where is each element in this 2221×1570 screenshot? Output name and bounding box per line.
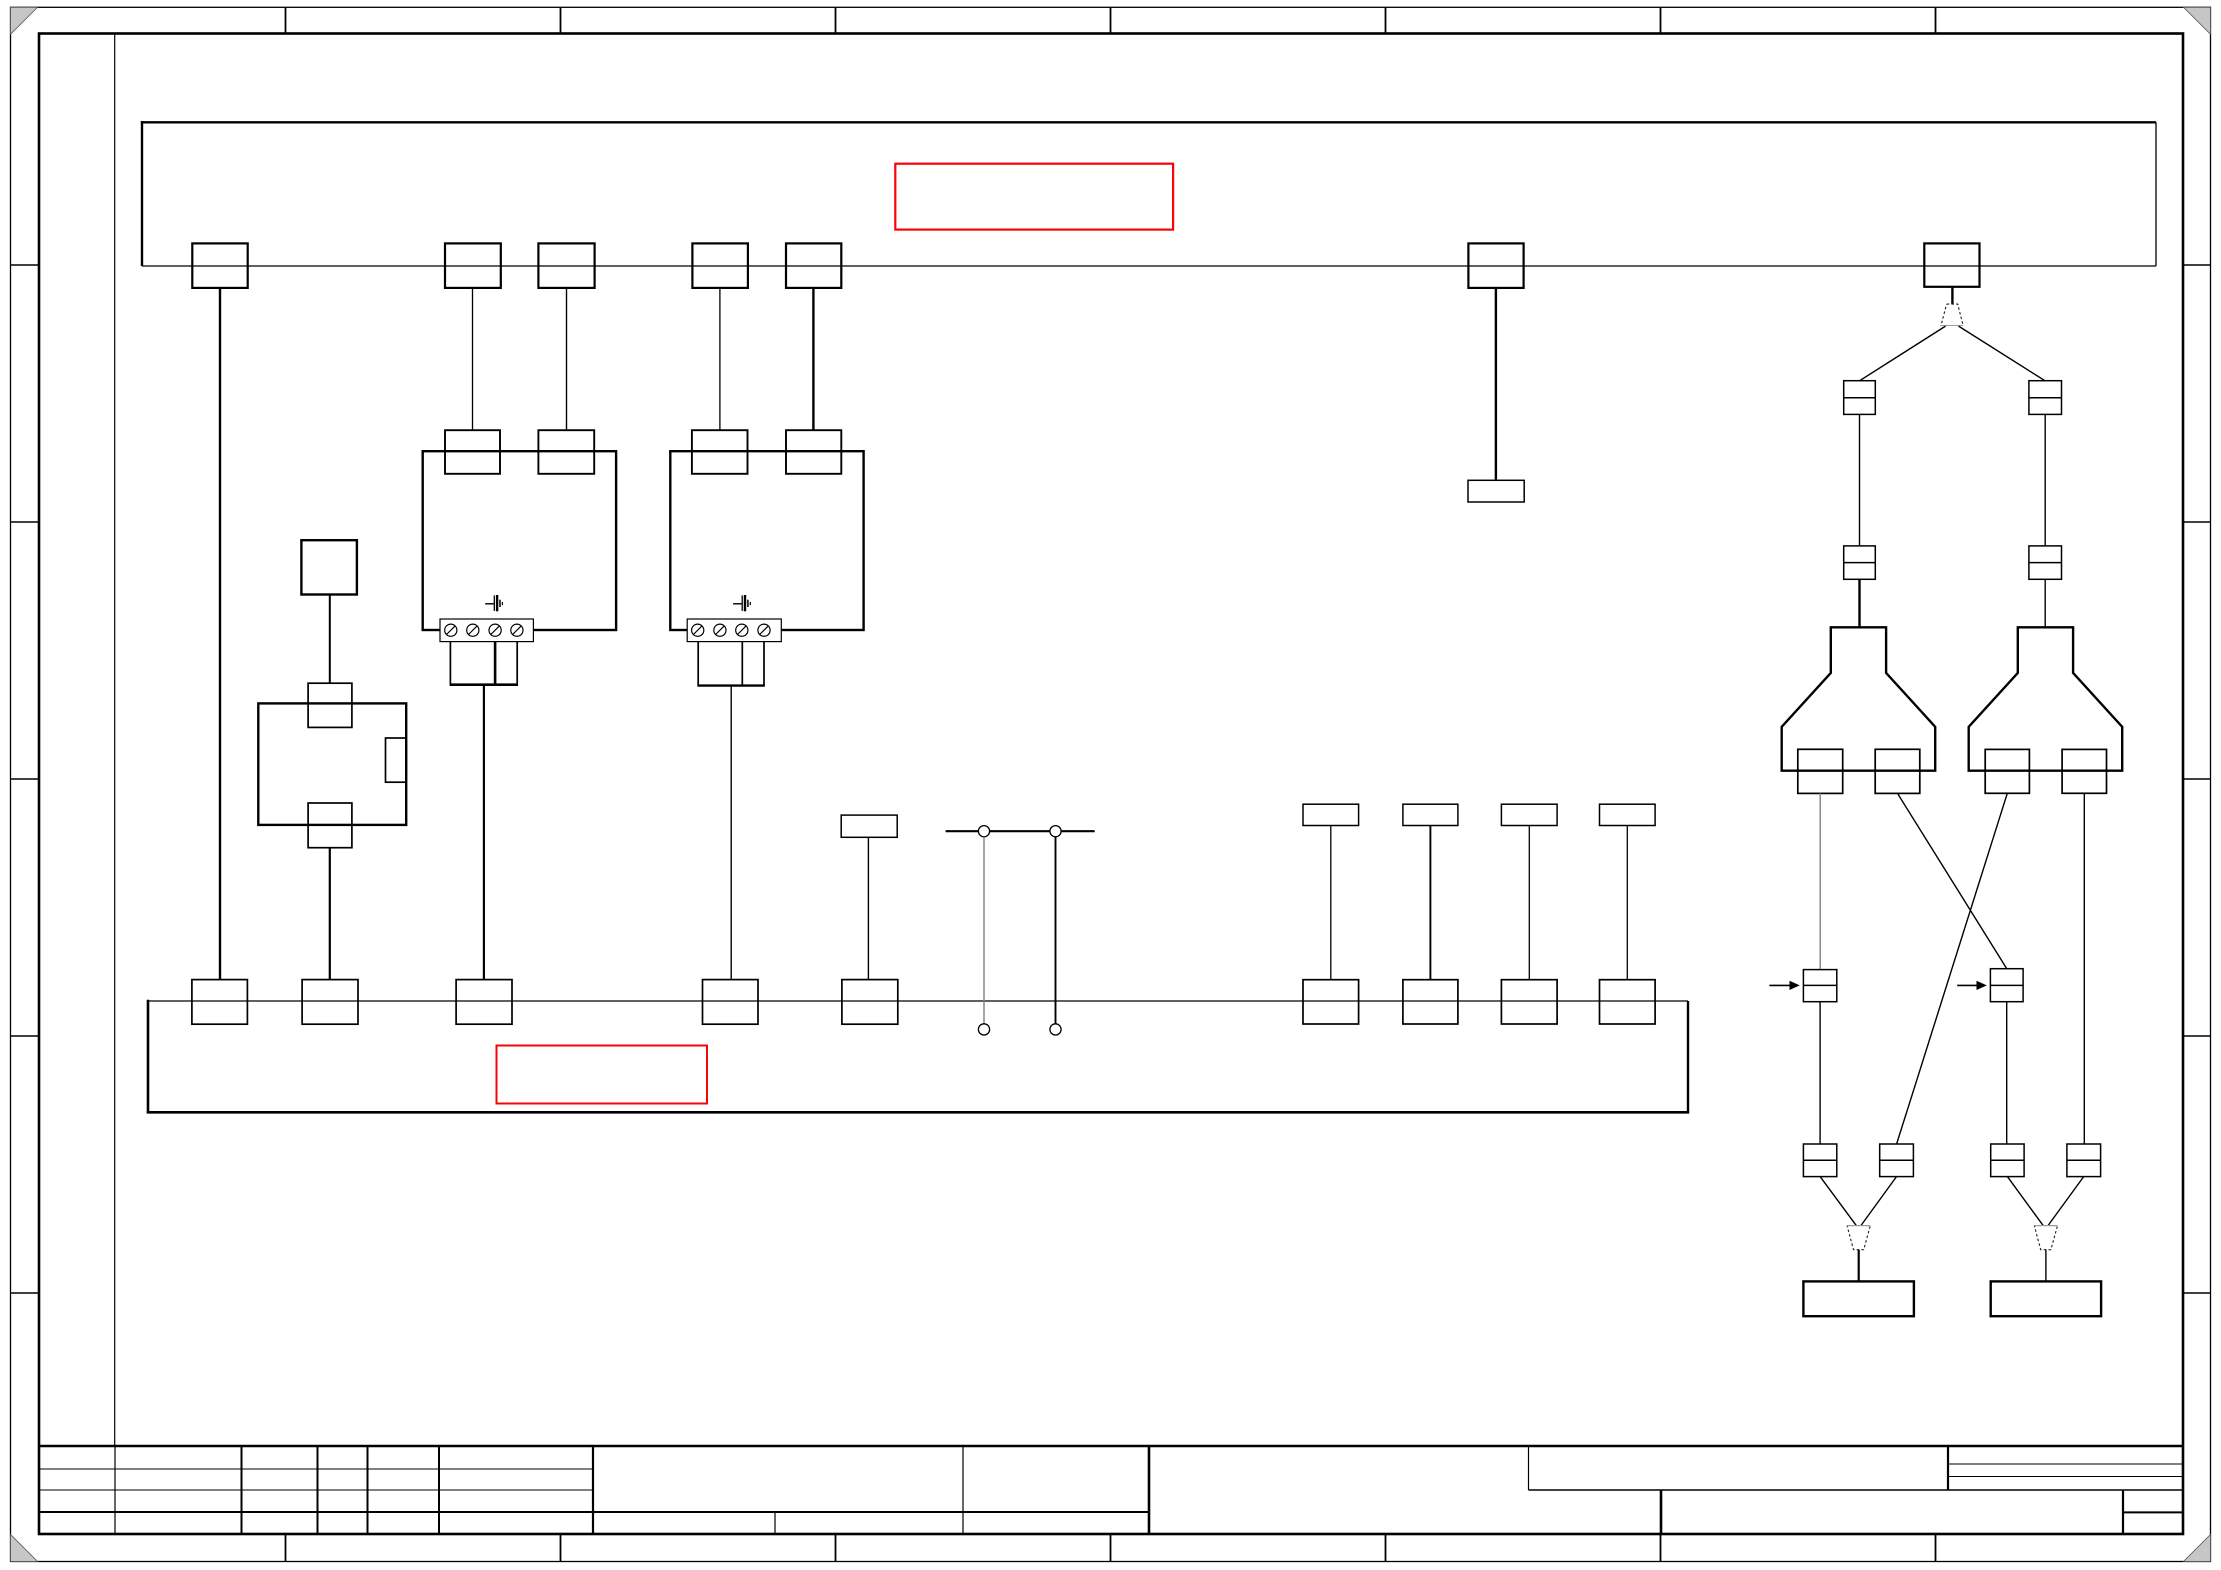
terminal H2 pin2 — [2062, 749, 2106, 793]
title block — [39, 1446, 2183, 1534]
terminal X1:5 top bus — [786, 243, 841, 288]
terminal X2:8 bottom bus — [1501, 980, 1557, 1024]
wire A to sleeve W2 — [1820, 1177, 1856, 1226]
wire terminal X1:1 to X2:1 — [219, 288, 221, 980]
splice pair right upper — [2029, 381, 2062, 415]
wire S2 to terminal X2:5 — [867, 837, 869, 979]
terminal X2:5 bottom bus — [842, 980, 898, 1025]
terminal X2:3 bottom bus — [456, 980, 512, 1025]
terminal X2:6 bottom bus — [1303, 980, 1359, 1024]
ferrule box right — [1990, 969, 2023, 1002]
terminal H1 pin1 — [1798, 749, 1843, 793]
splice pair A lower — [1803, 1144, 1836, 1177]
screw terminal strip U2 — [687, 619, 781, 642]
device box U1 — [423, 451, 616, 630]
splice pair left middle — [1844, 546, 1876, 579]
terminal X1:7 top bus — [1924, 243, 1979, 286]
terminal X1:6 top bus — [1468, 243, 1523, 288]
wire left branch down — [1859, 414, 1861, 546]
terminal U1 input a — [445, 430, 500, 474]
wire U2 plug to terminal X2:4 — [730, 686, 732, 980]
terminal X2:4 bottom bus — [703, 980, 759, 1025]
wire ferrule right down — [2006, 1002, 2008, 1144]
terminal X1:3 top bus — [538, 243, 594, 288]
wire S3 to terminal X2:6 — [1330, 826, 1332, 980]
wire terminal X1:7 down — [1951, 287, 1953, 304]
wire into hood H2 — [2044, 579, 2046, 627]
component rect S6 — [1600, 804, 1656, 825]
device rect P2 — [1991, 1281, 2101, 1316]
component rect S2 — [841, 815, 897, 837]
wire terminal X1:3 down — [566, 288, 568, 430]
plug housing U1 — [450, 642, 518, 685]
jumper contact circle top left — [978, 826, 989, 837]
bottom bus enclosure — [147, 1000, 1689, 1114]
arrow marker right — [1957, 981, 1987, 990]
terminal U2 input a — [692, 430, 748, 474]
corner triangle top-left — [11, 7, 38, 34]
revision table column line — [114, 34, 116, 1447]
terminal U1 input b — [538, 430, 594, 474]
top bus enclosure — [141, 121, 2156, 266]
component rect S5 — [1501, 804, 1557, 825]
wire B to sleeve W2 — [1861, 1177, 1897, 1226]
wire W1 branch left — [1860, 326, 1946, 381]
earth symbol U2 — [733, 595, 750, 611]
component square S1 — [301, 540, 357, 594]
corner triangle top-right — [2184, 7, 2211, 34]
frame column ticks top band — [286, 7, 1936, 33]
wire terminal X1:6 down — [1495, 288, 1497, 480]
red highlight rectangle top — [895, 164, 1173, 230]
wire S4 to terminal X2:7 — [1429, 826, 1431, 980]
component rect S3 — [1303, 804, 1359, 825]
cable sleeve W2 — [1847, 1226, 1870, 1250]
cable sleeve W1 — [1941, 304, 1963, 325]
terminal U3 bottom — [308, 803, 352, 848]
cable sleeve W3 — [2034, 1226, 2057, 1250]
corner triangle bottom-right — [2184, 1535, 2211, 1562]
jumper link bar — [946, 830, 1095, 832]
frame row ticks left band — [11, 265, 40, 1293]
wire W3 to P2 — [2045, 1250, 2047, 1282]
wire H1 pin1 down — [1819, 793, 1821, 969]
wire U3 to terminal X2:2 — [329, 848, 331, 980]
wire U1 plug to terminal X2:3 — [483, 685, 485, 980]
wire W1 branch right — [1959, 326, 2045, 381]
jumper wire right — [1055, 837, 1057, 1024]
wire S5 to terminal X2:8 — [1528, 826, 1530, 980]
device box U3 — [258, 703, 406, 825]
wire S1 to U3 — [329, 595, 331, 684]
splice pair B lower — [1880, 1144, 1914, 1177]
wire terminal X1:5 down — [812, 288, 814, 430]
wire D to sleeve W3 — [2048, 1177, 2084, 1226]
terminal X2:1 bottom bus — [192, 980, 248, 1025]
plug housing U2 — [697, 642, 764, 686]
terminal X2:9 bottom bus — [1600, 980, 1656, 1024]
splice pair right middle — [2029, 546, 2062, 579]
arrow marker left — [1769, 981, 1799, 990]
terminal H1 pin2 — [1875, 749, 1920, 793]
connector hood H1 — [1782, 627, 1936, 770]
device box U2 — [670, 451, 863, 630]
jumper wire left — [983, 837, 985, 1024]
frame column ticks bottom band — [286, 1534, 1936, 1562]
wire ferrule left down — [1819, 1002, 1821, 1144]
wire C to sleeve W3 — [2007, 1177, 2043, 1226]
terminal U3 top — [308, 683, 352, 727]
ferrule box left — [1803, 970, 1836, 1002]
wire terminal X1:2 down — [472, 288, 474, 430]
terminal H2 pin1 — [1985, 749, 2029, 793]
terminal X1:4 top bus — [692, 243, 748, 288]
jumper contact circle bottom right — [1050, 1024, 1061, 1035]
terminal U2 input b — [786, 430, 841, 474]
corner triangle bottom-left — [11, 1535, 38, 1562]
wire right branch down — [2044, 414, 2046, 546]
component rect S4 — [1403, 804, 1458, 825]
connector notch U3 — [386, 738, 407, 782]
splice pair D lower — [2067, 1144, 2101, 1177]
red highlight rectangle bottom — [497, 1046, 708, 1104]
wire H2 pin1 cross diagonal — [1897, 793, 2008, 1144]
splice pair left upper — [1844, 381, 1876, 415]
wire into hood H1 — [1858, 579, 1860, 627]
terminal X2:2 bottom bus — [302, 980, 358, 1025]
wire H1 pin2 cross diagonal — [1898, 793, 2007, 968]
screw terminal strip U1 — [440, 619, 533, 642]
terminal X1:2 top bus — [445, 243, 501, 288]
wire terminal X1:4 down — [719, 288, 721, 430]
jumper contact circle top right — [1050, 826, 1061, 837]
component rect S7 below X1:6 — [1468, 480, 1524, 502]
device rect P1 — [1803, 1281, 1914, 1316]
wire H2 pin2 down — [2083, 793, 2085, 1144]
connector hood H2 — [1969, 627, 2123, 770]
terminal X2:7 bottom bus — [1403, 980, 1458, 1024]
wire S6 to terminal X2:9 — [1626, 826, 1628, 980]
frame row ticks right band — [2183, 265, 2211, 1293]
earth symbol U1 — [485, 595, 502, 611]
terminal X1:1 top bus — [192, 243, 247, 288]
wire W2 to P1 — [1858, 1250, 1860, 1282]
splice pair C lower — [1991, 1144, 2024, 1177]
jumper contact circle bottom left — [978, 1024, 989, 1035]
